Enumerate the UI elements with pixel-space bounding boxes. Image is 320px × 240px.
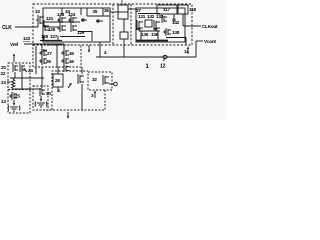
svg-text:Vcont: Vcont	[204, 39, 216, 44]
wire bias bus 4	[96, 56, 196, 58]
arrow 21 label	[13, 53, 15, 62]
svg-text:45: 45	[69, 51, 74, 56]
wire 138 row	[166, 37, 186, 39]
arrow 24	[23, 68, 27, 72]
arrow out	[88, 50, 90, 53]
svg-text:118: 118	[189, 7, 196, 12]
box 143	[145, 20, 152, 27]
transistor 27	[40, 49, 47, 57]
wire bottom rail	[40, 40, 62, 42]
ground symbol 1	[8, 106, 20, 112]
transistor 128	[71, 24, 77, 32]
svg-text:131: 131	[138, 14, 146, 19]
node 12	[163, 55, 167, 58]
transistor 32	[103, 75, 109, 85]
svg-text:25: 25	[15, 94, 20, 99]
transistor 124	[69, 16, 77, 24]
wire 31 top	[81, 67, 83, 74]
svg-text:127: 127	[50, 34, 58, 39]
wire Vref	[24, 43, 64, 45]
wire left vertical P	[35, 46, 37, 66]
arrow current 1	[13, 100, 15, 106]
transistor 25	[10, 92, 17, 100]
transistor 31	[78, 74, 84, 84]
svg-text:124: 124	[68, 12, 76, 17]
svg-text:36: 36	[104, 8, 109, 13]
svg-text:132: 132	[147, 14, 155, 19]
dashed bottom link	[46, 109, 105, 111]
wire CLK	[15, 26, 38, 28]
wire link boxes	[110, 11, 120, 13]
arrow below	[67, 112, 69, 119]
dashed box 3	[88, 72, 112, 90]
wire junction drop	[173, 14, 175, 19]
wire mid right	[139, 30, 160, 32]
wire vref drop	[63, 44, 65, 50]
transistor 44	[64, 65, 69, 72]
svg-text:20: 20	[1, 65, 6, 70]
wire drop from first cell	[99, 42, 101, 57]
wire P to R	[35, 66, 37, 74]
inner box first stage	[43, 8, 110, 42]
arrow 14	[187, 46, 189, 54]
svg-text:Vref: Vref	[10, 42, 19, 47]
wire box28 down	[57, 87, 59, 92]
wire row R	[10, 77, 44, 79]
outer dashed box 33 (delay line)	[33, 4, 192, 45]
stage divider	[61, 8, 63, 15]
box 28	[53, 74, 63, 87]
label 23 tick	[7, 81, 11, 83]
transistor 20	[20, 64, 25, 72]
box 118	[178, 5, 188, 14]
svg-text:121: 121	[46, 16, 54, 21]
stage box 35	[86, 8, 88, 16]
dashed right link	[104, 90, 106, 110]
wire Q down	[57, 67, 59, 74]
wire stage tap node B	[97, 20, 99, 22]
ground symbol 2	[35, 102, 47, 108]
wire pmos rail	[138, 13, 160, 15]
svg-text:12: 12	[160, 64, 166, 70]
svg-text:135: 135	[141, 32, 149, 37]
wire tap A	[81, 19, 87, 21]
dashed box 21	[33, 45, 57, 67]
svg-text:123: 123	[57, 12, 65, 17]
transistor 138	[164, 28, 171, 36]
wire drop from box 40	[123, 39, 125, 57]
transistor 46	[62, 57, 69, 65]
wire Vcont	[196, 40, 203, 42]
wire 14 drop	[185, 38, 187, 46]
wire corner right	[60, 36, 85, 38]
small box 41	[118, 5, 128, 19]
svg-text:136: 136	[151, 32, 159, 37]
arrow 31	[68, 83, 72, 88]
wire node link	[109, 83, 114, 85]
dashed box 13	[8, 63, 30, 113]
wire box118 drop	[182, 14, 184, 26]
arrow current 2	[40, 96, 42, 102]
svg-text:23: 23	[1, 80, 6, 85]
small box 40	[120, 32, 128, 39]
wire 45 top	[63, 65, 65, 67]
dashed divider box 13	[8, 89, 30, 91]
svg-text:28: 28	[55, 78, 60, 83]
dashed box 30	[33, 86, 48, 110]
inner box last stage	[136, 8, 185, 42]
transistor 26	[40, 57, 47, 65]
wire 129 out	[78, 32, 92, 42]
svg-text:13: 13	[1, 99, 6, 104]
transistor 30	[40, 88, 45, 96]
wire CLKout	[183, 25, 201, 27]
wire bottom rail right	[136, 40, 168, 42]
wire verticals R	[14, 72, 16, 78]
svg-text:CLK: CLK	[2, 25, 12, 31]
svg-text:142: 142	[172, 20, 180, 25]
svg-text:129: 129	[77, 30, 85, 35]
wire clk inner	[44, 26, 58, 28]
svg-text:138: 138	[172, 30, 180, 35]
box 117	[157, 5, 177, 14]
wire stage tap node A	[82, 19, 84, 21]
wire tap B	[96, 20, 103, 22]
wire row R2	[12, 88, 14, 90]
svg-text:46: 46	[69, 59, 74, 64]
transistor 136	[154, 20, 160, 30]
wire 30 up	[41, 67, 43, 88]
wire rail drops	[140, 31, 142, 40]
svg-text:30: 30	[46, 91, 51, 96]
dashed partition left cell	[112, 4, 114, 45]
svg-text:117: 117	[163, 7, 170, 12]
svg-text:24: 24	[28, 68, 33, 73]
node junction	[173, 19, 175, 21]
wire internal rail	[44, 21, 80, 23]
transistor 19	[13, 64, 18, 72]
wire Vcont drop	[195, 41, 197, 57]
box 41 divider	[118, 11, 128, 13]
dashed box 2 outline	[52, 71, 88, 110]
svg-text:22: 22	[1, 71, 6, 76]
svg-text:27: 27	[47, 51, 52, 56]
transistor 121	[36, 15, 44, 25]
node tick	[164, 59, 165, 61]
transistor 139	[162, 15, 167, 23]
transistor 125	[43, 24, 49, 32]
dashed box 22	[57, 45, 81, 67]
svg-text:133: 133	[156, 14, 164, 19]
svg-text:125: 125	[41, 34, 49, 39]
svg-text:126: 126	[48, 27, 56, 32]
wire 31 drop	[81, 84, 83, 110]
transistor 123	[58, 16, 66, 24]
transistor 134	[137, 20, 143, 30]
stage row bottom	[87, 15, 110, 17]
svg-text:32: 32	[92, 77, 97, 82]
wire node small	[123, 19, 125, 32]
svg-text:26: 26	[46, 59, 51, 64]
wire out drop	[88, 45, 90, 51]
svg-text:14: 14	[184, 49, 189, 54]
resistor R1	[12, 79, 15, 89]
svg-text:35: 35	[93, 9, 98, 14]
arrow 3	[94, 90, 96, 98]
tick artifact top	[121, 0, 123, 3]
dashed partition right cell	[130, 4, 132, 45]
wire 27 top	[41, 45, 43, 49]
stage divider	[80, 8, 82, 15]
svg-text:37: 37	[136, 8, 141, 13]
svg-text:122: 122	[23, 36, 31, 41]
stage box 36	[102, 8, 104, 16]
node circle	[114, 82, 118, 86]
wire bottom rail ticks	[43, 36, 45, 40]
transistor 126	[58, 24, 66, 32]
svg-text:CLKout: CLKout	[202, 24, 218, 29]
wire link to right cell	[128, 8, 136, 10]
transistor 45	[62, 49, 69, 57]
svg-text:33: 33	[35, 9, 40, 14]
